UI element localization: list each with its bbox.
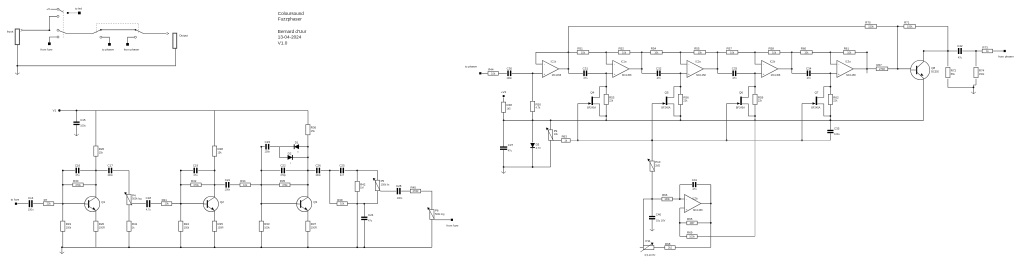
- svg-text:from phaser: from phaser: [998, 55, 1013, 59]
- svg-text:R26: R26: [99, 147, 105, 151]
- svg-text:100k lin: 100k lin: [381, 184, 390, 187]
- svg-text:47u: 47u: [958, 56, 963, 59]
- svg-text:Q1: Q1: [101, 200, 105, 204]
- resistor R61 feedback: [830, 51, 843, 53]
- switch SW1 contact from-fuzz: [57, 36, 59, 38]
- resistor R65: [680, 222, 687, 224]
- node source hook: [830, 115, 832, 117]
- wire P10 to LFO node: [651, 171, 653, 199]
- node Q3 base R35: [260, 184, 262, 186]
- node gate sweep rail: [577, 140, 579, 142]
- wire C42 to R74 node: [962, 50, 982, 52]
- capacitor C23: [265, 144, 266, 150]
- svg-text:100n: 100n: [507, 77, 513, 80]
- svg-text:C25: C25: [339, 164, 345, 168]
- wire R72 to ground row: [948, 79, 974, 88]
- node IC1a out top: [641, 51, 643, 53]
- switch SW2 gang link dashed: [96, 23, 138, 33]
- node IC2a -in top: [680, 51, 682, 53]
- resistor R63: [561, 139, 570, 143]
- wire input to R44: [482, 72, 488, 74]
- JFET Q7: [816, 97, 818, 105]
- svg-text:BF245A: BF245A: [736, 107, 745, 110]
- node gate sweep rail: [726, 140, 728, 142]
- node Q3 collector row R35: [307, 184, 309, 186]
- wire R bias to rail: [680, 105, 682, 121]
- node R25 ground: [214, 246, 216, 248]
- svg-text:R7: R7: [44, 198, 48, 202]
- switch SW1 gang link dashed: [62, 10, 64, 39]
- wire R68 to P11: [654, 247, 665, 249]
- node Q3 base C23: [260, 146, 262, 148]
- wire R42 column: [356, 171, 358, 182]
- svg-text:4,7u: 4,7u: [146, 208, 151, 211]
- svg-text:C30: C30: [507, 66, 513, 70]
- wire LFO +in column: [679, 208, 681, 236]
- capacitor C41: [692, 182, 693, 187]
- svg-text:Output: Output: [179, 34, 188, 38]
- wire D2 row: [279, 156, 287, 158]
- node bias ground left: [503, 166, 505, 168]
- wire C15 to ground: [76, 125, 78, 130]
- svg-text:-: -: [763, 62, 764, 66]
- svg-text:100R: 100R: [99, 227, 105, 230]
- svg-text:150k: 150k: [868, 25, 874, 28]
- svg-text:to fuzz: to fuzz: [11, 198, 20, 202]
- node R37 ground: [307, 246, 309, 248]
- wire R bias to rail: [829, 105, 831, 121]
- svg-text:C42: C42: [957, 44, 963, 48]
- wire C33b column: [503, 120, 505, 146]
- wire -in column: [606, 52, 613, 64]
- svg-text:Bernard d'Uur: Bernard d'Uur: [278, 29, 307, 34]
- svg-text:D2: D2: [288, 152, 292, 156]
- resistor R67: [876, 67, 888, 71]
- wire out column: [717, 52, 719, 73]
- svg-text:47u: 47u: [75, 174, 80, 177]
- capacitor C28: [397, 188, 398, 194]
- ground output network: [973, 87, 975, 93]
- node Q3 collector row C22: [307, 170, 309, 172]
- terminal V1 supply: [58, 109, 60, 111]
- capacitor C17: [108, 168, 109, 174]
- node Q8 collector out: [923, 50, 925, 52]
- svg-text:V1.0: V1.0: [278, 40, 288, 45]
- svg-text:C15: C15: [80, 118, 86, 122]
- resistor R7: [43, 202, 53, 206]
- wire R19 to ground rail: [62, 231, 64, 247]
- wire to to-phaser terminal: [102, 37, 109, 43]
- svg-text:500k log: 500k log: [435, 213, 445, 216]
- svg-text:BF245A: BF245A: [811, 107, 820, 110]
- svg-text:from fuzz: from fuzz: [41, 48, 53, 52]
- resistor R57 input: [718, 51, 727, 53]
- node Q3 base: [260, 203, 262, 205]
- transistor Q8: [911, 60, 930, 79]
- wire R7 to base: [54, 203, 63, 205]
- svg-text:1k5: 1k5: [507, 108, 512, 111]
- wire R39 node to C24: [357, 203, 364, 205]
- capacitor C31: [583, 71, 584, 77]
- resistor R60 input: [792, 51, 801, 53]
- node IC1a +in: [605, 72, 607, 74]
- terminal +V2: [503, 95, 505, 97]
- node feedback tap: [897, 26, 899, 28]
- node bias rail: [605, 119, 607, 121]
- node IC3a +in: [830, 72, 832, 74]
- capacitor C42 output: [958, 48, 959, 54]
- wire output to column: [629, 68, 642, 70]
- node bias rail left: [503, 119, 505, 121]
- wire jack grounds: [16, 45, 18, 66]
- node R42 ground: [356, 246, 358, 248]
- svg-text:R59: R59: [758, 95, 764, 99]
- terminal from fuzz: [48, 42, 51, 45]
- wire junction to upper contact: [49, 16, 57, 30]
- node LFO out: [710, 203, 712, 205]
- svg-text:to led: to led: [75, 7, 82, 11]
- diode D2: [288, 155, 293, 160]
- svg-text:C14: C14: [28, 196, 34, 200]
- resistor R73: [982, 49, 992, 53]
- node IC1a out: [641, 68, 643, 70]
- wire +in to op-amp: [681, 72, 688, 74]
- switch SW1 pole: [57, 29, 59, 31]
- svg-text:47u: 47u: [193, 174, 198, 177]
- node IC3a out top: [866, 51, 868, 53]
- wire output row: [924, 50, 958, 52]
- wire gate column to sweep rail: [801, 104, 803, 141]
- node IC2b out: [791, 68, 793, 70]
- svg-text:IC3b: IC3b: [692, 196, 698, 200]
- svg-text:13-04-2024: 13-04-2024: [278, 35, 302, 40]
- terminal fuzz out: [451, 219, 453, 221]
- wire -in column: [755, 52, 762, 64]
- svg-text:Fuzzphaser: Fuzzphaser: [278, 17, 302, 22]
- JFET Q6: [740, 97, 742, 105]
- wire Q3 emitter down: [307, 211, 309, 221]
- wire input to switch: [23, 29, 50, 31]
- wire input to C14: [17, 203, 28, 205]
- wire contact to from-fuzz terminal: [49, 37, 57, 42]
- resistor R53 bias: [604, 94, 608, 104]
- svg-text:to phaser: to phaser: [102, 48, 114, 52]
- wire row to P5 bottom: [364, 203, 377, 205]
- svg-text:R20: R20: [99, 222, 105, 226]
- wire Q5 drain hook: [667, 87, 680, 98]
- node Q8 base: [897, 68, 899, 70]
- svg-text:R28: R28: [218, 147, 224, 151]
- switch SW2 bar: [101, 29, 136, 31]
- svg-text:100n: 100n: [107, 174, 113, 177]
- wire bias ground row: [504, 166, 551, 168]
- output jack tip mark: [167, 32, 169, 34]
- capacitor C37 bias: [500, 146, 507, 147]
- wire R36 to collector: [307, 135, 309, 197]
- svg-text:R36: R36: [311, 126, 317, 130]
- svg-text:R34: R34: [240, 179, 246, 183]
- node drain hook: [830, 86, 832, 88]
- wire to from-phaser terminal: [128, 37, 135, 43]
- svg-text:from fuzz: from fuzz: [447, 224, 459, 228]
- output jack J2: [173, 33, 177, 48]
- svg-text:MC1458: MC1458: [622, 74, 632, 77]
- wire R50 to bias rail: [532, 112, 534, 121]
- wire R30 row: [63, 184, 73, 186]
- node IC1a -in top: [605, 51, 607, 53]
- node Q2 base top: [180, 170, 182, 172]
- ground C40: [651, 225, 653, 231]
- terminal to phaser: [108, 43, 111, 46]
- node Q2 collector feedback: [214, 184, 216, 186]
- wire R67 to base node: [888, 68, 911, 70]
- wire Q4 gate: [578, 103, 591, 105]
- svg-text:Q8: Q8: [931, 66, 935, 70]
- svg-text:R61: R61: [844, 47, 850, 51]
- wire +in to op-amp: [606, 72, 613, 74]
- resistor R70: [865, 25, 877, 29]
- capacitor C25: [340, 168, 341, 174]
- wire C17 row: [96, 170, 108, 172]
- node Q3 collector D1: [307, 146, 309, 148]
- wire global feedback riser: [567, 26, 569, 52]
- wire R40 to P6: [421, 191, 432, 210]
- svg-text:R54: R54: [651, 47, 657, 51]
- node IC3a out: [866, 68, 868, 70]
- node C26 C25 junction: [329, 170, 331, 172]
- svg-text:P5: P5: [381, 179, 385, 183]
- svg-text:-: -: [688, 62, 689, 66]
- potentiometer P4: [127, 194, 131, 205]
- svg-text:4n7: 4n7: [340, 174, 345, 177]
- wire C25 to P5: [357, 171, 377, 181]
- wire Q1 emitter down: [95, 211, 97, 221]
- node R42 bottom: [356, 203, 358, 205]
- wire +in to op-amp: [830, 72, 837, 74]
- wire R20 to ground rail: [95, 231, 97, 247]
- resistor R28: [213, 146, 217, 156]
- svg-text:D3: D3: [536, 143, 540, 147]
- wire +in node to R bias: [605, 73, 607, 94]
- wire -in column: [681, 52, 688, 64]
- svg-text:C19: C19: [193, 164, 199, 168]
- input jack J1: [15, 29, 19, 45]
- svg-text:R53: R53: [609, 95, 615, 99]
- node IC2a out top: [717, 51, 719, 53]
- svg-text:BF245A: BF245A: [587, 107, 596, 110]
- capacitor C24: [363, 204, 365, 217]
- svg-text:100n: 100n: [265, 150, 271, 153]
- wire Q7 gate: [802, 103, 815, 105]
- svg-text:BC550: BC550: [931, 71, 939, 74]
- svg-text:100u: 100u: [834, 133, 840, 136]
- node R24 ground: [180, 246, 182, 248]
- svg-text:C40: C40: [656, 213, 662, 217]
- svg-text:2M2: 2M2: [655, 164, 660, 167]
- wire +in node to R bias: [754, 73, 756, 94]
- wire global feedback top: [568, 25, 865, 27]
- resistor R48: [502, 102, 506, 112]
- wire Q3 base wire: [261, 203, 297, 205]
- node Q1 base top: [62, 170, 64, 172]
- resistor R20: [94, 221, 98, 231]
- switch SW2 blade right: [136, 30, 144, 34]
- svg-text:100n: 100n: [315, 174, 321, 177]
- svg-text:to phaser: to phaser: [465, 64, 477, 68]
- svg-text:Input: Input: [7, 29, 14, 33]
- wire bias rail: [504, 119, 924, 121]
- svg-text:P6: P6: [435, 209, 439, 213]
- node C24 ground: [363, 246, 365, 248]
- svg-text:C32: C32: [656, 66, 662, 70]
- switch SW2 contact to-phaser: [100, 36, 102, 38]
- wire out column: [866, 52, 868, 73]
- svg-text:C16: C16: [75, 164, 81, 168]
- svg-text:R42: R42: [360, 182, 366, 186]
- wire gate column to sweep rail: [726, 104, 728, 141]
- wire R44 to C30: [499, 72, 507, 74]
- resistor R26: [94, 146, 98, 156]
- wire coupling C32 row: [642, 72, 657, 74]
- wire fuzz power rail: [59, 110, 308, 112]
- svg-text:R50: R50: [536, 102, 542, 106]
- wire Q7 source hook: [817, 104, 830, 116]
- node C41 tap: [679, 198, 681, 200]
- svg-text:2k2: 2k2: [668, 247, 673, 250]
- resistor R39: [337, 202, 347, 206]
- svg-text:4,7V: 4,7V: [536, 147, 541, 150]
- resistor R72: [946, 67, 950, 77]
- wire to C15: [76, 111, 78, 122]
- capacitor C30: [507, 71, 508, 77]
- svg-text:470k: 470k: [193, 184, 199, 187]
- wire Q5 gate: [652, 103, 665, 105]
- resistor R69: [680, 235, 687, 237]
- wire R37 to ground rail: [307, 231, 309, 247]
- wire Q2 emitter down: [214, 211, 216, 221]
- wire ground row to P9: [550, 140, 552, 167]
- node Q1 collector row: [95, 170, 97, 172]
- wire zener column: [532, 120, 534, 142]
- wire out column: [791, 52, 793, 73]
- switch SW1 contact +V: [57, 8, 59, 10]
- resistor R52 feedback: [606, 51, 618, 53]
- svg-text:Q7: Q7: [815, 90, 819, 94]
- node output R74: [975, 50, 977, 52]
- switch SW2 contact from-phaser: [134, 36, 136, 38]
- wire coupling C33 row: [718, 72, 733, 74]
- svg-text:R71: R71: [904, 21, 910, 25]
- wire +in to op-amp: [755, 72, 762, 74]
- svg-text:R51: R51: [577, 47, 583, 51]
- capacitor C14 input: [29, 200, 30, 207]
- resistor R32: [191, 183, 201, 187]
- resistor R66: [662, 197, 672, 201]
- node R50 bias rail: [532, 119, 534, 121]
- svg-text:R56: R56: [683, 95, 689, 99]
- svg-text:C23: C23: [265, 140, 271, 144]
- svg-text:Q3: Q3: [313, 200, 317, 204]
- op-amp IC1b buffer: [542, 60, 558, 77]
- svg-text:4M7: 4M7: [690, 222, 695, 225]
- ground bias network: [503, 167, 505, 173]
- wire Q8 collector to output row: [923, 51, 925, 60]
- svg-text:R69: R69: [687, 231, 693, 235]
- node LFO integrator: [651, 198, 653, 200]
- potentiometer P6: [430, 210, 434, 220]
- capacitor C32: [657, 71, 658, 77]
- wire C30 to buffer input: [512, 72, 543, 74]
- svg-text:R52: R52: [619, 47, 625, 51]
- wire C14 to R7: [33, 203, 43, 205]
- svg-text:47n: 47n: [692, 188, 697, 191]
- svg-text:R21: R21: [162, 198, 168, 202]
- svg-text:C33: C33: [732, 66, 738, 70]
- potentiometer P5: [375, 180, 379, 191]
- wire C26 junction down: [329, 171, 331, 204]
- svg-text:100n: 100n: [28, 208, 34, 211]
- wire sweep rail: [570, 139, 830, 141]
- op-amp IC3a: [837, 60, 853, 77]
- capacitor C15: [73, 122, 79, 123]
- node R65 out: [710, 222, 712, 224]
- svg-text:P4: P4: [132, 193, 136, 197]
- node power rail C15: [76, 110, 78, 112]
- node diode pair left: [278, 147, 280, 158]
- resistor R56 bias: [678, 94, 682, 104]
- svg-text:100n: 100n: [397, 197, 403, 200]
- node drain hook: [605, 86, 607, 88]
- node gate sweep rail: [651, 140, 653, 142]
- node IC2a +in: [680, 72, 682, 74]
- svg-text:100k: 100k: [689, 235, 695, 238]
- terminal phaser out: [1004, 50, 1006, 52]
- svg-text:R32: R32: [191, 179, 197, 183]
- wire last stage out to R67: [867, 68, 876, 70]
- node Q2 base feedback: [180, 184, 182, 186]
- svg-text:47u: 47u: [368, 220, 373, 223]
- svg-text:-: -: [838, 62, 839, 66]
- wire C18 to R21: [151, 203, 162, 205]
- node ground junction: [16, 65, 18, 67]
- wire Q2 base column: [180, 171, 182, 222]
- wire output to column: [853, 68, 867, 70]
- wire feedback to base node: [897, 26, 899, 68]
- wire R26 to collector node: [95, 156, 97, 170]
- resistor R58 feedback: [755, 51, 768, 53]
- wire R33 to ground rail: [260, 231, 262, 247]
- svg-text:100n: 100n: [225, 189, 231, 192]
- svg-text:R44: R44: [488, 68, 494, 72]
- wire fuzz ground rail: [62, 246, 432, 248]
- wire R35 row: [261, 184, 279, 186]
- wire Q5 source hook: [667, 104, 680, 116]
- node C25 R42 junction: [356, 170, 358, 172]
- svg-text:C18: C18: [146, 196, 152, 200]
- svg-text:100k: 100k: [907, 25, 913, 28]
- wire C41 riser: [679, 185, 681, 199]
- svg-text:BF245A: BF245A: [661, 107, 670, 110]
- svg-text:C17: C17: [108, 164, 114, 168]
- wire C25 row: [330, 170, 340, 172]
- ground jacks: [16, 66, 18, 75]
- wire output to column: [703, 68, 717, 70]
- svg-text:R37: R37: [311, 222, 317, 226]
- wire Q2 collector down: [214, 171, 216, 198]
- potentiometer P11 speed: [643, 246, 654, 250]
- svg-text:Q6: Q6: [739, 90, 743, 94]
- node source hook: [754, 115, 756, 117]
